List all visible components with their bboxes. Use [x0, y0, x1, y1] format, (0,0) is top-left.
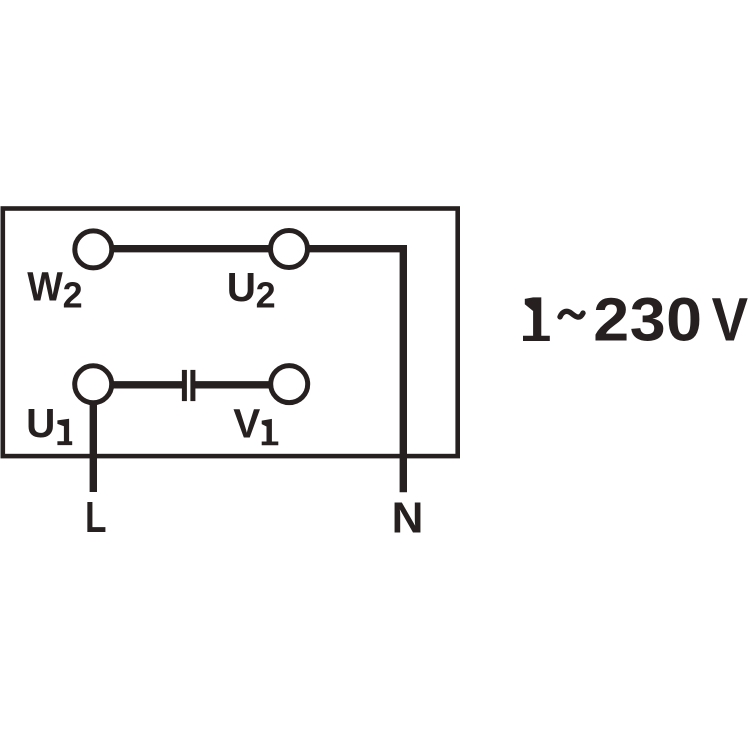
svg-text:W: W — [27, 265, 63, 310]
capacitor C right plate — [190, 370, 195, 401]
svg-text:N: N — [392, 493, 424, 542]
svg-text:U: U — [227, 264, 256, 310]
svg-text:V: V — [233, 401, 260, 447]
svg-text:L: L — [85, 493, 107, 542]
wire U1 to capacitor left plate — [93, 381, 184, 388]
capacitor C left plate — [182, 370, 187, 401]
svg-text:V: V — [712, 286, 749, 355]
svg-text:2: 2 — [256, 275, 276, 316]
terminal U1 — [75, 366, 112, 403]
terminal V1 — [271, 366, 308, 403]
wire W2 to U2 continuing to corner and down to N lead — [93, 249, 403, 493]
svg-text:2: 2 — [63, 275, 83, 316]
terminal box outline — [3, 209, 458, 457]
svg-text:U: U — [26, 400, 55, 446]
svg-text:230: 230 — [593, 286, 702, 354]
wire U1 down to L lead — [90, 384, 97, 492]
terminal U2 — [271, 231, 308, 268]
terminal W2 — [75, 231, 112, 268]
wire capacitor right plate to V1 — [193, 381, 289, 388]
rating text: digit 1 — [523, 297, 550, 341]
rating text: tilde — [560, 311, 583, 317]
